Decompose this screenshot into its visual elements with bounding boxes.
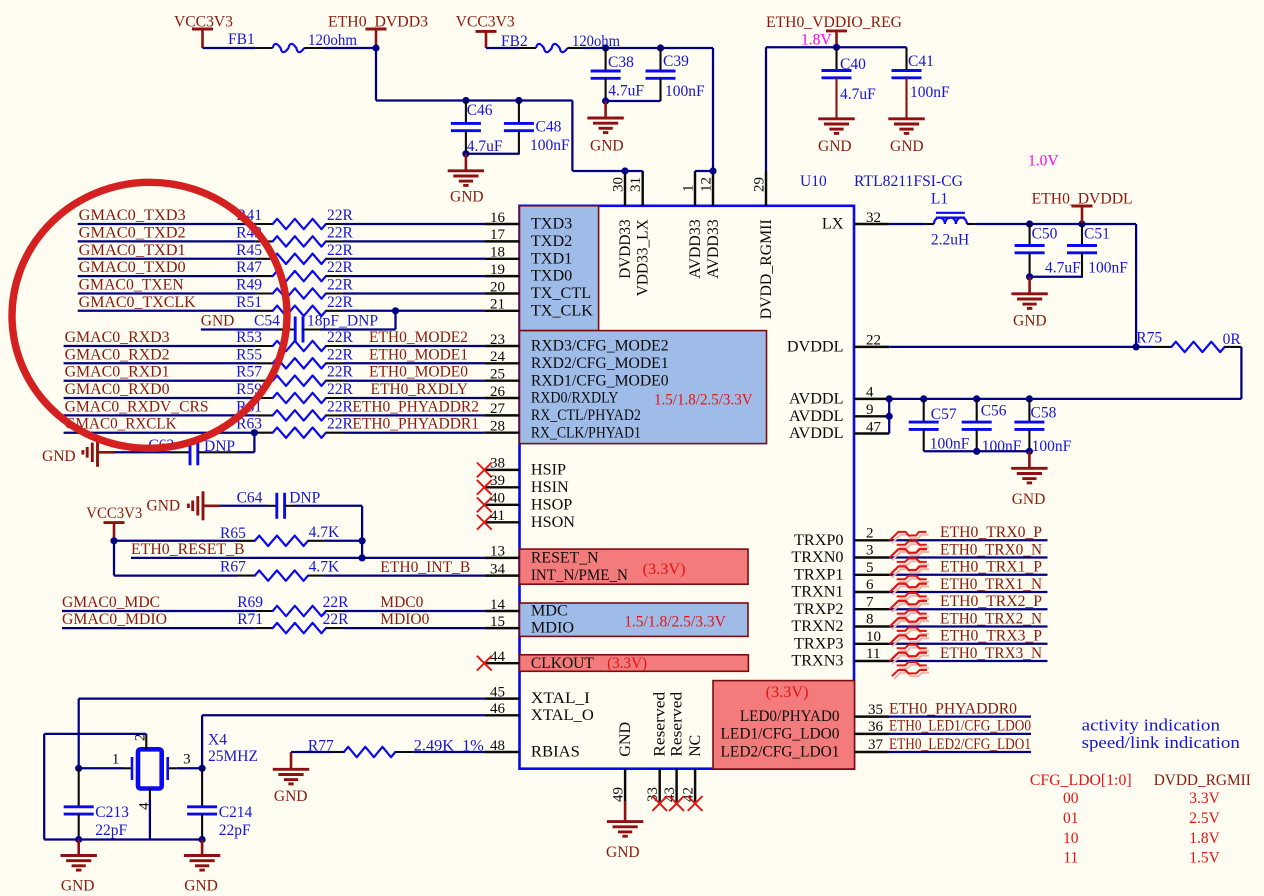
svg-text:19: 19: [490, 262, 505, 278]
svg-text:36: 36: [868, 719, 884, 735]
pin name NC (bottom, pin 42): [686, 735, 704, 757]
svg-text:ETH0_RESET_B: ETH0_RESET_B: [131, 541, 245, 558]
capacitor C51: [1067, 224, 1097, 277]
pin 28 RX_CLK/PHYAD1 stub: [484, 431, 519, 433]
power port VCC3V3 (FB1): [192, 29, 213, 48]
svg-text:GND: GND: [890, 138, 924, 155]
wire R75 to AVDDL rail: [889, 347, 1241, 399]
label GND (C41): [890, 138, 924, 155]
label GND (C38): [590, 138, 624, 155]
svg-text:1.8V: 1.8V: [1189, 830, 1220, 847]
ferrite bead FB1: [256, 44, 325, 52]
junction C214 bottom: [199, 836, 206, 843]
svg-text:RXD0/RXDLY: RXD0/RXDLY: [531, 389, 619, 407]
pin 49 number: [611, 787, 627, 802]
svg-text:25: 25: [490, 367, 505, 383]
wire net ETH0_TRX2_N: [890, 625, 1048, 627]
wire VCC3V3 to FB2: [486, 47, 519, 49]
value 100nF (C57): [930, 436, 970, 453]
net label VCC3V3 (R65): [86, 505, 142, 522]
svg-text:TRXP3: TRXP3: [794, 634, 843, 652]
svg-text:41: 41: [490, 508, 505, 524]
differential pair symbol (ETH0_TRX3_N): [890, 653, 930, 679]
net label GMAC0_TXD3: [79, 207, 186, 224]
differential pair symbol (ETH0_TRX0_N): [890, 549, 930, 575]
svg-text:GMAC0_RXD0: GMAC0_RXD0: [65, 381, 170, 398]
wire LX to L1: [889, 223, 925, 225]
svg-text:12: 12: [699, 177, 715, 192]
svg-text:R69: R69: [237, 594, 263, 611]
value DNP (C62): [204, 438, 235, 455]
value 22R (R49): [327, 277, 354, 294]
pin 22 DVDDL stub: [854, 346, 889, 348]
svg-text:ETH0_VDDIO_REG: ETH0_VDDIO_REG: [766, 14, 902, 31]
svg-text:ETH0_INT_B: ETH0_INT_B: [380, 559, 470, 576]
net label ETH0_MODE1: [369, 346, 468, 363]
svg-text:(3.3V): (3.3V): [643, 561, 686, 578]
junction C51 top: [1078, 220, 1085, 227]
wire R51 to pin: [343, 310, 484, 312]
ground GND (C64, rotated): [188, 491, 220, 520]
pin 8 number: [866, 612, 874, 628]
net label GMAC0_TXD2: [79, 224, 186, 241]
pin 27 RX_CTL/PHYAD2 stub: [484, 414, 519, 416]
svg-text:C214: C214: [219, 804, 253, 821]
svg-text:XTAL_O: XTAL_O: [531, 706, 594, 724]
svg-text:18pF_DNP: 18pF_DNP: [307, 313, 378, 330]
table header DVDD_RGMII: [1154, 772, 1251, 789]
ground GND (C214): [184, 840, 220, 871]
differential pair symbol (ETH0_TRX1_N): [890, 584, 930, 610]
svg-text:TRXN3: TRXN3: [791, 652, 843, 670]
ground GND (C62, rotated): [83, 438, 115, 467]
pin 24 RXD2/CFG_MODE1 stub: [484, 362, 519, 364]
power port ETH0_VDDIO_REG: [826, 31, 847, 47]
pin 20 TX_CTL stub: [484, 292, 519, 294]
svg-text:0R: 0R: [1223, 331, 1242, 348]
svg-text:(3.3V): (3.3V): [607, 655, 647, 672]
svg-text:FB1: FB1: [228, 31, 255, 48]
pin 48 number: [490, 738, 505, 754]
wire down to pins 30/31: [572, 101, 642, 172]
value 100nF (C39): [665, 83, 705, 100]
svg-text:100nF: 100nF: [530, 137, 570, 154]
pin 42 number: [681, 787, 697, 802]
designator C214: [219, 804, 253, 821]
svg-text:4.7uF: 4.7uF: [608, 83, 644, 100]
svg-text:LX: LX: [822, 215, 844, 233]
junction crystal pin3: [199, 765, 206, 772]
resistor R67: [238, 570, 324, 580]
svg-text:TX_CTL: TX_CTL: [531, 284, 591, 302]
wire GND to R77: [291, 751, 331, 753]
svg-text:MDIO0: MDIO0: [380, 611, 429, 628]
pin 5 TRXP1 stub: [854, 574, 890, 576]
wire C38-C39 bottoms: [606, 100, 661, 102]
wire net XTAL_O (pin 46): [202, 715, 484, 768]
junction pin4: [886, 395, 893, 402]
resistor R43: [256, 236, 343, 246]
svg-text:23: 23: [490, 332, 505, 348]
pin 45 number: [490, 684, 505, 700]
table row 11: [1063, 850, 1078, 867]
svg-text:C50: C50: [1032, 225, 1058, 242]
svg-text:33: 33: [645, 787, 661, 802]
designator C50: [1032, 225, 1058, 242]
pin name TRXN0: [791, 548, 843, 566]
svg-text:49: 49: [611, 787, 627, 802]
wire C50-C51 bottoms: [1030, 276, 1083, 278]
svg-text:ETH0_MODE2: ETH0_MODE2: [369, 329, 468, 346]
wire R41 to pin: [343, 223, 484, 225]
net label ETH0_INT_B: [380, 559, 470, 576]
pin 7 number: [866, 594, 874, 610]
svg-text:R45: R45: [236, 242, 262, 259]
svg-text:GMAC0_TXD1: GMAC0_TXD1: [79, 242, 186, 259]
note activity indication: [1082, 716, 1221, 735]
junction C38 top: [602, 44, 609, 51]
svg-text:R49: R49: [236, 277, 262, 294]
designator R69: [237, 594, 263, 611]
ground GND (C38): [587, 101, 623, 133]
pin 13 number: [490, 544, 505, 560]
table header CFG_LDO[1:0]: [1030, 772, 1132, 789]
wire DVDDL vertical: [1135, 224, 1137, 347]
net label GMAC0_RXCLK: [65, 416, 178, 433]
svg-text:RBIAS: RBIAS: [531, 743, 580, 761]
pin name LED0/PHYAD0: [740, 707, 840, 725]
svg-text:16: 16: [490, 210, 506, 226]
pin 5 number: [866, 560, 874, 576]
wire R49 to pin: [343, 292, 484, 294]
svg-text:DNP: DNP: [204, 438, 235, 455]
value 22R (R43): [327, 224, 354, 241]
designator C38: [608, 54, 634, 71]
pin name TRXN1: [791, 583, 843, 601]
pin 19 TXD0 stub: [484, 275, 519, 277]
pin 48 RBIAS stub: [484, 751, 519, 753]
designator R45: [236, 242, 262, 259]
pin 27 number: [490, 401, 506, 417]
wire pin49 to GND: [624, 801, 626, 805]
svg-text:GND: GND: [42, 448, 76, 465]
net label GMAC0_RXDV_CRS: [65, 398, 209, 415]
svg-text:HSIP: HSIP: [531, 461, 566, 479]
pin 18 TXD1 stub: [484, 258, 519, 260]
pin 34 name INT_N/PME_N: [531, 566, 628, 584]
net label GMAC0_TXCLK: [79, 294, 197, 311]
svg-text:C56: C56: [981, 402, 1007, 419]
svg-text:ETH0_TRX1_P: ETH0_TRX1_P: [940, 559, 1042, 576]
net label ETH0_LED1/CFG_LDO0: [889, 718, 1031, 735]
pin 31 number: [628, 177, 644, 192]
pin 26 RXD0/RXDLY stub: [484, 397, 519, 399]
svg-text:RXD2/CFG_MODE1: RXD2/CFG_MODE1: [531, 354, 669, 372]
pin 35 LED0/PHYAD0 stub: [854, 715, 889, 717]
svg-text:CLKOUT: CLKOUT: [531, 654, 594, 672]
designator C39: [663, 53, 689, 70]
differential pair symbol (ETH0_TRX0_P): [890, 532, 930, 558]
pin 18 number: [490, 245, 505, 261]
svg-text:TXD1: TXD1: [531, 249, 572, 267]
label GND (C58): [1012, 491, 1046, 508]
svg-text:AVDDL: AVDDL: [789, 390, 844, 408]
designator R75: [1136, 330, 1162, 347]
wire net GMAC0_TXCLK: [78, 310, 256, 312]
pin 15 MDIO stub: [484, 627, 519, 629]
svg-text:4.7K: 4.7K: [309, 558, 340, 575]
svg-text:25MHZ: 25MHZ: [208, 748, 258, 765]
value 22R (R61): [327, 398, 354, 415]
svg-text:GMAC0_TXCLK: GMAC0_TXCLK: [79, 294, 197, 311]
value 120ohm (FB1): [308, 32, 357, 49]
pin 46 number: [490, 701, 506, 717]
pin 38 no-connect X: [477, 463, 492, 478]
designator C46: [467, 102, 493, 119]
pin name TRXN3: [791, 652, 843, 670]
svg-text:11: 11: [1063, 850, 1078, 867]
svg-text:ETH0_PHYADDR2: ETH0_PHYADDR2: [352, 398, 479, 415]
svg-text:VCC3V3: VCC3V3: [86, 505, 142, 522]
wire C46-C48 bottoms: [466, 153, 520, 155]
crystal pin 4 number: [137, 802, 153, 810]
pin name LED2/CFG_LDO1: [721, 743, 840, 761]
pin 38 number: [490, 456, 505, 472]
svg-text:ETH0_TRX3_P: ETH0_TRX3_P: [940, 628, 1042, 645]
junction C38 bottom: [602, 97, 609, 104]
highlight block LED pins: [713, 681, 855, 769]
pin 27 name RX_CTL/PHYAD2: [531, 406, 641, 424]
svg-text:HSOP: HSOP: [531, 495, 572, 513]
svg-text:CFG_LDO[1:0]: CFG_LDO[1:0]: [1030, 772, 1132, 789]
svg-text:GND: GND: [201, 313, 235, 330]
net label GMAC0_RXD0: [65, 381, 170, 398]
net label GMAC0_MDIO: [62, 611, 167, 628]
svg-text:HSIN: HSIN: [531, 478, 569, 496]
label GND (C64): [147, 497, 181, 514]
resistor R77: [331, 747, 414, 757]
value 22R (R63): [327, 416, 354, 433]
svg-text:1.0V: 1.0V: [1028, 153, 1059, 170]
pin 25 number: [490, 367, 505, 383]
svg-text:GND: GND: [1013, 313, 1047, 330]
capacitor C213: [64, 768, 94, 839]
svg-text:Reserved: Reserved: [651, 692, 669, 757]
svg-text:ETH0_DVDD3: ETH0_DVDD3: [328, 14, 428, 31]
svg-text:ETH0_PHYADDR0: ETH0_PHYADDR0: [889, 700, 1017, 717]
svg-text:4.7uF: 4.7uF: [1045, 259, 1081, 276]
value 4.7K (R65): [309, 524, 340, 541]
svg-text:GND: GND: [274, 788, 308, 805]
value 4.7K (R67): [309, 558, 340, 575]
pin 46 name XTAL_O: [531, 706, 594, 724]
resistor R53: [256, 341, 343, 351]
svg-text:22R: 22R: [327, 242, 354, 259]
svg-text:GMAC0_TXD3: GMAC0_TXD3: [79, 207, 186, 224]
svg-text:24: 24: [490, 349, 506, 365]
svg-text:39: 39: [490, 473, 505, 489]
svg-text:22R: 22R: [327, 346, 354, 363]
wire net GMAC0_RXDV_CRS: [64, 414, 256, 416]
pin name LED1/CFG_LDO0: [721, 725, 840, 743]
svg-text:GND: GND: [616, 721, 634, 756]
designator R65: [220, 525, 246, 542]
pin 6 TRXN1 stub: [854, 591, 890, 593]
junction C54/TX_CLK: [392, 307, 399, 314]
svg-text:1: 1: [112, 752, 120, 768]
annotation 1.5/1.8/2.5/3.3V MDC block: [624, 614, 726, 631]
resistor R51: [256, 306, 343, 316]
pin 21 number: [490, 297, 505, 313]
svg-text:TRXN0: TRXN0: [791, 548, 843, 566]
pin name AVDD33 (top): [686, 219, 704, 278]
net label MDIO0: [380, 611, 429, 628]
pin 24 number: [490, 349, 506, 365]
pin 12 number: [699, 177, 715, 192]
svg-text:7: 7: [866, 594, 874, 610]
svg-text:TRXN1: TRXN1: [791, 583, 843, 601]
svg-text:ETH0_PHYADDR1: ETH0_PHYADDR1: [352, 416, 479, 433]
value 100nF (C48): [530, 137, 570, 154]
svg-text:GMAC0_MDC: GMAC0_MDC: [62, 594, 160, 611]
svg-text:RX_CTL/PHYAD2: RX_CTL/PHYAD2: [531, 406, 641, 424]
svg-text:22R: 22R: [327, 224, 354, 241]
label GND (R77): [274, 788, 308, 805]
wire net ETH0_TRX1_P: [890, 574, 1048, 576]
svg-text:TXD0: TXD0: [531, 267, 572, 285]
designator R77: [308, 737, 334, 754]
pin 13 name RESET_N: [531, 549, 599, 567]
designator C64: [237, 489, 263, 506]
wire FB2 to AVDD corner: [583, 47, 713, 49]
pin name AVDD33 (top): [704, 219, 722, 278]
power port VCC3V3 (R65): [104, 523, 125, 541]
pin 22 name DVDDL: [787, 337, 844, 355]
net label ETH0_PHYADDR0: [889, 700, 1017, 717]
svg-text:17: 17: [490, 227, 506, 243]
junction C46 bottom: [462, 150, 469, 157]
svg-text:DVDD_RGMII: DVDD_RGMII: [1154, 772, 1251, 789]
wire net GMAC0_RXCLK: [64, 432, 256, 434]
pin 33 number: [645, 787, 661, 802]
svg-text:GND: GND: [184, 878, 218, 895]
pin 17 TXD2 stub: [484, 240, 519, 242]
junction C213 bottom: [75, 836, 82, 843]
svg-text:15: 15: [490, 614, 505, 630]
svg-text:ETH0_TRX1_N: ETH0_TRX1_N: [940, 576, 1042, 593]
capacitor C58: [1014, 399, 1044, 451]
capacitor C38: [591, 48, 621, 101]
pin name TRXP3: [794, 634, 843, 652]
wire C64 down to R65: [295, 506, 362, 558]
svg-text:46: 46: [490, 701, 506, 717]
svg-text:GMAC0_RXD1: GMAC0_RXD1: [65, 364, 170, 381]
pin 26 name RXD0/RXDLY: [531, 389, 619, 407]
svg-text:TXD3: TXD3: [531, 215, 572, 233]
svg-text:GMAC0_TXEN: GMAC0_TXEN: [79, 277, 184, 294]
wire R77 to pin 48: [414, 751, 485, 753]
svg-text:R47: R47: [236, 259, 262, 276]
pin 36 LED1/CFG_LDO0 stub: [854, 733, 889, 735]
svg-text:C38: C38: [608, 54, 634, 71]
junction C58 top: [1026, 395, 1033, 402]
value 22R (R45): [327, 242, 354, 259]
value 22R (R41): [327, 207, 354, 224]
pin 23 number: [490, 332, 505, 348]
svg-text:GMAC0_TXD0: GMAC0_TXD0: [79, 259, 186, 276]
designator R57: [236, 364, 262, 381]
svg-text:11: 11: [866, 646, 880, 662]
junction C50 bottom: [1026, 273, 1033, 280]
crystal pin2 ground loop: [44, 734, 202, 840]
svg-text:GMAC0_TXD2: GMAC0_TXD2: [79, 224, 186, 241]
net label GMAC0_TXD1: [79, 242, 186, 259]
svg-text:120ohm: 120ohm: [308, 32, 357, 49]
pin 37 LED2/CFG_LDO1 stub: [854, 751, 889, 753]
pin 40 HSOP stub: [484, 504, 519, 506]
designator R59: [236, 381, 262, 398]
svg-text:4.7uF: 4.7uF: [840, 86, 876, 103]
pin 3 number: [866, 543, 874, 559]
svg-text:22R: 22R: [327, 329, 354, 346]
table row 10: [1063, 830, 1079, 847]
svg-text:ETH0_LED2/CFG_LDO1: ETH0_LED2/CFG_LDO1: [889, 736, 1031, 753]
net label ETH0_PHYADDR1: [352, 416, 479, 433]
svg-text:INT_N/PME_N: INT_N/PME_N: [531, 566, 628, 584]
capacitor C46: [451, 101, 481, 154]
capacitor C214: [187, 768, 217, 839]
crystal pin4 lead: [149, 789, 151, 840]
svg-text:48: 48: [490, 738, 505, 754]
pin name DVDD33 (top): [616, 219, 634, 278]
pin 32 number: [866, 210, 881, 226]
designator L1: [931, 190, 948, 207]
svg-text:26: 26: [490, 384, 506, 400]
designator C41: [908, 53, 934, 70]
net label ETH0_RESET_B: [131, 541, 245, 558]
svg-text:1.5V: 1.5V: [1189, 850, 1220, 867]
svg-text:TRXN2: TRXN2: [791, 617, 843, 635]
pin 47 name AVDDL: [789, 424, 844, 442]
junction pin9: [886, 413, 893, 420]
wire net GMAC0_RXD1: [64, 380, 256, 382]
crystal pin 3 number: [183, 752, 191, 768]
ground GND (C58): [1011, 451, 1047, 483]
designator X4: [208, 732, 227, 749]
svg-text:100nF: 100nF: [930, 436, 970, 453]
label GND (C40): [818, 138, 852, 155]
wire net GMAC0_TXD2: [78, 240, 256, 242]
svg-text:C54: C54: [254, 313, 280, 330]
wire R53 to pin: [343, 345, 484, 347]
crystal pin 1 number: [112, 752, 120, 768]
value 22R (R71): [323, 611, 350, 628]
wire R57 to pin: [343, 380, 484, 382]
svg-text:VCC3V3: VCC3V3: [174, 14, 233, 31]
wire net GMAC0_TXEN: [78, 292, 256, 294]
svg-text:C213: C213: [95, 804, 129, 821]
pin name Reserved (bottom, pin 33): [651, 692, 669, 757]
wire ETH0_DVDD3 down-right to C46/C48: [376, 48, 572, 101]
svg-text:GND: GND: [1012, 491, 1046, 508]
svg-text:VDD33_LX: VDD33_LX: [634, 219, 652, 296]
svg-text:RESET_N: RESET_N: [531, 549, 599, 567]
value 4.7uF (C40): [840, 86, 876, 103]
pin name DVDD_RGMII (top): [757, 219, 775, 319]
value 18pF_DNP (C54): [307, 313, 378, 330]
svg-text:20: 20: [490, 279, 505, 295]
pin 44 name CLKOUT: [531, 654, 594, 672]
